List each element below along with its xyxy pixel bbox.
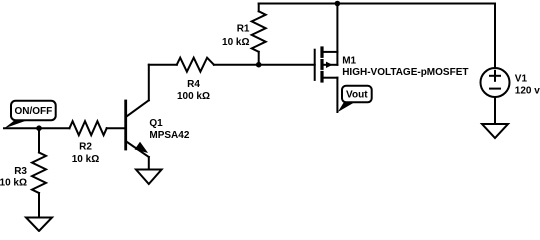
M1 channel segments: [320, 48, 323, 81]
svg-text:Vout: Vout: [346, 90, 368, 101]
wire V1 bottom lead: [494, 97, 496, 124]
node junction R1-gate: [256, 62, 262, 68]
svg-text:R4: R4: [187, 79, 200, 90]
ground (R3): [26, 218, 52, 232]
M1 pin stubs: [324, 51, 338, 53]
M1 body arrow: [326, 62, 333, 68]
svg-text:V1: V1: [515, 73, 528, 84]
voltage source V1: [481, 4, 510, 125]
V1 circle body: [481, 68, 510, 97]
wire source drop (Vout node): [336, 78, 338, 112]
wire base rail: [4, 127, 70, 129]
wire V1 top lead: [494, 4, 496, 69]
flag Vout: [338, 86, 372, 112]
M1 gate plate: [314, 50, 316, 80]
label R3 value: [0, 166, 27, 189]
label R2 value: [72, 142, 99, 166]
wire base rail right: [107, 127, 126, 129]
node junction flag/R3: [36, 125, 42, 131]
Q1 emitter arrow: [135, 143, 146, 153]
label R4 value: [177, 79, 210, 102]
resistor R2: [70, 121, 107, 135]
Q1 base bar: [124, 101, 127, 149]
wire emitter to ground: [148, 157, 150, 170]
svg-text:HIGH-VOLTAGE-pMOSFET: HIGH-VOLTAGE-pMOSFET: [342, 67, 468, 78]
label V1 value: [515, 73, 540, 96]
svg-text:R3: R3: [14, 166, 27, 177]
resistor R4: [149, 58, 214, 72]
V1 minus sign: [490, 88, 500, 90]
Q1 collector stroke: [126, 100, 149, 116]
svg-text:M1: M1: [342, 55, 356, 66]
node junction drain/top rail: [335, 1, 341, 7]
label R1 value: [222, 23, 250, 48]
wire gate rail: [214, 64, 315, 66]
resistor R1: [252, 4, 266, 65]
flag ON/OFF: [4, 101, 56, 129]
wire drain riser: [336, 4, 338, 65]
svg-text:120 v: 120 v: [515, 86, 540, 97]
mosfet M1: [315, 48, 338, 81]
svg-text:10 kΩ: 10 kΩ: [72, 154, 99, 165]
ground (Q1 emitter): [136, 170, 162, 185]
svg-text:MPSA42: MPSA42: [149, 130, 189, 141]
wire top rail: [259, 3, 495, 5]
svg-text:R1: R1: [237, 23, 250, 34]
svg-text:10 kΩ: 10 kΩ: [0, 178, 27, 189]
transistor Q1: [126, 100, 149, 169]
svg-text:ON/OFF: ON/OFF: [15, 106, 53, 117]
ground (V1): [482, 124, 508, 138]
svg-text:100 kΩ: 100 kΩ: [177, 91, 210, 102]
svg-text:10 kΩ: 10 kΩ: [222, 37, 249, 48]
resistor R3: [32, 128, 46, 217]
label Q1 name: [149, 118, 189, 141]
svg-text:R2: R2: [79, 142, 92, 153]
svg-text:Q1: Q1: [149, 118, 163, 129]
V1 plus sign: [490, 75, 500, 77]
wire collector riser: [148, 65, 150, 101]
Q1 emitter stroke: [126, 142, 149, 158]
label M1 name: [342, 55, 468, 78]
